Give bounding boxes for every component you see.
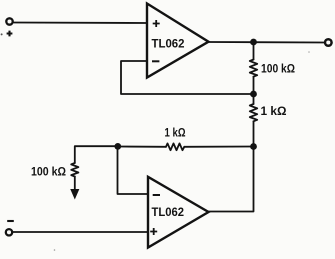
svg-text:100 kΩ: 100 kΩ xyxy=(261,62,295,76)
resistor R3 1k zigzag xyxy=(166,143,184,150)
resistor R4 100k zigzag xyxy=(71,163,78,177)
output terminal xyxy=(325,39,332,46)
wire U1 output to output terminal xyxy=(209,41,326,44)
speck bottom area xyxy=(54,249,56,251)
junction node C xyxy=(250,143,257,150)
svg-text:1 kΩ: 1 kΩ xyxy=(261,104,287,118)
wire node C down to U2 output xyxy=(209,147,254,212)
wire R2 bottom to node C xyxy=(253,121,255,146)
wire input- to U2 noninverting input xyxy=(13,231,149,233)
speck right of R1 xyxy=(308,51,310,53)
wire input+ to U1 noninverting input xyxy=(13,22,148,25)
wire node A to resistor R1 top xyxy=(253,42,255,60)
junction node A xyxy=(250,39,257,46)
op-amp U1 - input pin mark xyxy=(152,60,159,62)
junction node B xyxy=(250,91,257,98)
wire R3 right to node C xyxy=(184,146,253,148)
label - polarity of bottom input xyxy=(7,220,14,222)
op-amp U2 + input pin mark xyxy=(150,228,157,235)
label + polarity of top input xyxy=(7,31,13,37)
input terminal + (top left) xyxy=(6,18,12,24)
svg-text:1 kΩ: 1 kΩ xyxy=(165,125,186,139)
junction node D xyxy=(114,143,121,150)
op-amp U1 + input pin mark xyxy=(153,20,160,27)
op-amp U2 TL062 triangle xyxy=(148,177,209,248)
op-amp U1 TL062 triangle xyxy=(147,4,209,78)
svg-text:100 kΩ: 100 kΩ xyxy=(31,165,66,179)
resistor R1 100k zigzag xyxy=(250,60,257,77)
op-amp U2 - input pin mark xyxy=(153,194,160,196)
wire node B to resistor R2 top xyxy=(253,94,255,104)
svg-text:TL062: TL062 xyxy=(152,36,185,50)
wire node D left to resistor R4 xyxy=(75,146,118,163)
wire R4 bottom to arrow xyxy=(74,177,76,191)
wire U1 inverting input feedback loop xyxy=(121,61,254,94)
input terminal - (bottom left) xyxy=(6,229,12,235)
wire node D to resistor R3 left xyxy=(118,146,167,148)
arrow to negative supply below R4 xyxy=(71,189,79,198)
svg-text:TL062: TL062 xyxy=(152,205,185,219)
wire node D down to U2 inverting input xyxy=(118,147,149,195)
wire R1 bottom to node B xyxy=(253,77,255,94)
resistor R2 1k zigzag xyxy=(250,104,257,121)
speck near input plus xyxy=(1,33,3,35)
